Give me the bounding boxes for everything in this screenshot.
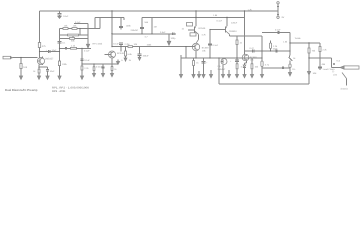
svg-text:10uF: 10uF	[52, 49, 58, 52]
svg-text:RP1, RP2 - 1,000,000/100K: RP1, RP2 - 1,000,000/100K	[52, 86, 89, 89]
svg-text:10uF: 10uF	[50, 70, 56, 73]
svg-text:Treble: Treble	[295, 37, 302, 40]
svg-text:RP1 100k: RP1 100k	[93, 42, 104, 45]
svg-text:0.1uF: 0.1uF	[213, 44, 219, 47]
svg-text:2.2M: 2.2M	[125, 43, 130, 46]
svg-text:BC549: BC549	[199, 27, 206, 30]
svg-text:1M: 1M	[154, 26, 157, 29]
svg-text:2N3904: 2N3904	[229, 30, 237, 33]
svg-text:100p: 100p	[171, 37, 177, 40]
svg-text:0.22uF: 0.22uF	[96, 66, 103, 69]
svg-text:(-): (-)	[332, 70, 334, 73]
svg-text:10uF: 10uF	[273, 47, 279, 50]
svg-text:0.1uF: 0.1uF	[75, 21, 81, 24]
svg-text:BC549: BC549	[250, 56, 257, 59]
svg-text:RP3 - 470K: RP3 - 470K	[52, 90, 66, 93]
svg-text:Out: Out	[336, 59, 340, 62]
svg-text:0.5uF: 0.5uF	[160, 31, 166, 34]
svg-text:0.1uF: 0.1uF	[84, 50, 90, 53]
svg-text:220uF: 220uF	[231, 22, 238, 25]
svg-text:0.1uF: 0.1uF	[275, 28, 281, 31]
svg-text:2N5457: 2N5457	[131, 29, 139, 32]
svg-text:0.1uF: 0.1uF	[113, 42, 119, 45]
svg-text:chassis: chassis	[341, 87, 349, 90]
svg-text:BC549: BC549	[202, 47, 209, 50]
svg-text:Dual Discrete/IC Preamp: Dual Discrete/IC Preamp	[5, 88, 38, 92]
svg-text:10uF: 10uF	[63, 15, 69, 18]
svg-text:0.1uF: 0.1uF	[84, 59, 90, 62]
svg-text:100uF: 100uF	[143, 54, 150, 57]
svg-text:2N5457: 2N5457	[218, 68, 226, 71]
svg-text:BC549: BC549	[117, 52, 124, 55]
svg-text:2N5457: 2N5457	[45, 57, 54, 60]
svg-text:0.1uF: 0.1uF	[217, 19, 223, 22]
